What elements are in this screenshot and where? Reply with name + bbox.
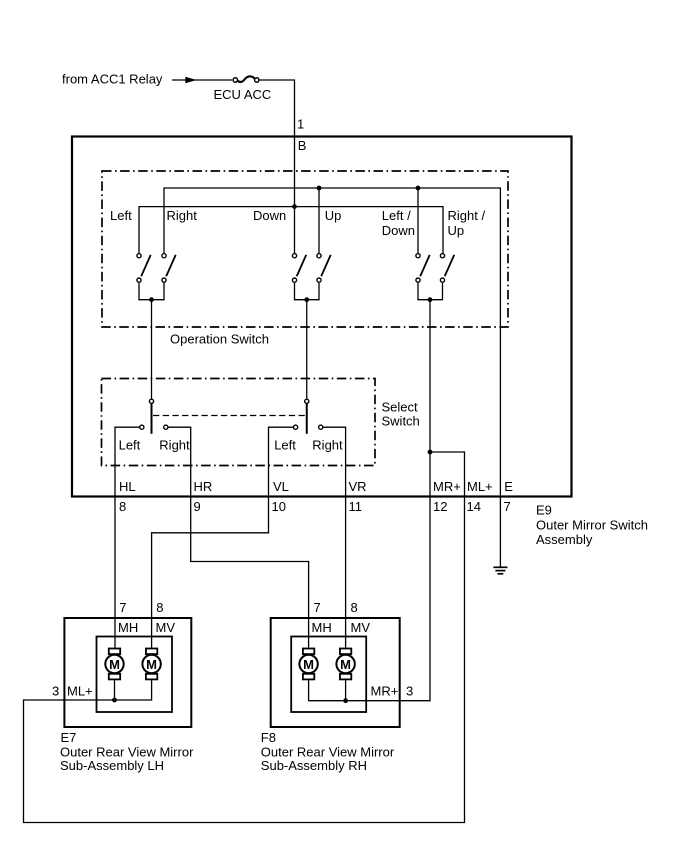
svg-text:E9: E9 <box>536 503 552 518</box>
select switch 1 (horizontal) <box>140 399 168 434</box>
svg-text:Operation Switch: Operation Switch <box>170 332 269 347</box>
wire: Left+Right pair connector <box>139 283 164 300</box>
svg-text:Sub-Assembly LH: Sub-Assembly LH <box>60 758 164 773</box>
svg-text:Down: Down <box>382 223 415 238</box>
wire: pair1 output to select switch 1 common <box>151 300 153 399</box>
motor F8 MV <box>336 649 354 680</box>
svg-text:14: 14 <box>467 499 481 514</box>
operation switch dash-dot box <box>102 171 508 327</box>
junction on upper bus (Left/Down) <box>416 186 421 191</box>
wire: lower bus (Left / Down / RightUp commons) <box>139 207 443 253</box>
svg-text:12: 12 <box>433 499 447 514</box>
svg-text:VR: VR <box>349 479 367 494</box>
svg-text:Outer Mirror Switch: Outer Mirror Switch <box>536 518 648 533</box>
svg-text:MV: MV <box>156 620 176 635</box>
select switch dash-dot box <box>102 379 376 466</box>
E7 inner motor box <box>97 637 173 713</box>
svg-text:Right: Right <box>167 208 198 223</box>
svg-text:ECU ACC: ECU ACC <box>214 87 272 102</box>
svg-text:M: M <box>146 657 157 672</box>
svg-text:B: B <box>298 138 307 153</box>
motor F8 MH <box>299 649 317 680</box>
junction feed to lower bus <box>292 204 297 209</box>
wire: HR from select1 right contact to F8 MH motor <box>168 427 308 648</box>
wire: pair2 output to select switch 2 common <box>306 300 308 399</box>
svg-text:Switch: Switch <box>382 414 420 429</box>
svg-text:MH: MH <box>312 620 332 635</box>
junction E7 motor common <box>112 698 117 703</box>
svg-text:7: 7 <box>314 600 321 615</box>
arrow (feed direction) <box>172 77 232 83</box>
wire: F8 MV motor bottom stub <box>345 679 347 700</box>
svg-text:HR: HR <box>194 479 213 494</box>
component box: E9 outer mirror switch assembly <box>72 137 572 497</box>
svg-text:from ACC1 Relay: from ACC1 Relay <box>62 72 163 87</box>
component box: F8 outer rear view mirror sub-assembly RH <box>271 618 400 727</box>
svg-text:Select: Select <box>382 400 419 415</box>
svg-text:8: 8 <box>119 499 126 514</box>
svg-text:Left /: Left / <box>382 208 411 223</box>
wire: MR+ run, pair3 output down to F8 pin 3 <box>309 300 430 701</box>
svg-text:F8: F8 <box>261 730 276 745</box>
svg-text:Right /: Right / <box>448 208 486 223</box>
svg-text:Left: Left <box>119 437 141 452</box>
junction on upper bus (Up) <box>317 186 322 191</box>
mechanical link (dashed) between select switches <box>153 415 307 417</box>
junction pair3 output <box>428 297 433 302</box>
svg-text:HL: HL <box>119 479 136 494</box>
svg-text:11: 11 <box>349 499 363 514</box>
wire: Up switch stub <box>318 188 320 253</box>
switch SW-Down (operation) <box>292 254 306 283</box>
svg-text:10: 10 <box>272 499 286 514</box>
svg-text:Left: Left <box>110 208 132 223</box>
wire: E7 MH motor bottom stub <box>114 679 116 700</box>
switch SW-Right/Up (operation) <box>440 254 454 283</box>
wire: fuse to node B, down into switch assembly <box>260 80 295 253</box>
wire: VL from select2 left contact to E7 MV motor <box>152 427 294 648</box>
svg-text:ML+: ML+ <box>467 479 493 494</box>
wire: Left/Down switch stub <box>417 188 419 253</box>
select switch 2 (vertical) <box>294 399 323 434</box>
wire: LeftDown+RightUp pair connector <box>418 283 443 300</box>
svg-text:MR+: MR+ <box>433 479 461 494</box>
svg-text:Down: Down <box>253 208 286 223</box>
svg-text:VL: VL <box>273 479 289 494</box>
svg-text:E7: E7 <box>61 730 77 745</box>
svg-text:3: 3 <box>406 683 413 698</box>
svg-text:M: M <box>303 657 314 672</box>
motor E7 MH <box>105 649 123 680</box>
svg-text:8: 8 <box>156 600 163 615</box>
wire: Down+Up pair connector <box>295 283 320 300</box>
svg-text:7: 7 <box>119 600 126 615</box>
svg-text:M: M <box>340 657 351 672</box>
svg-text:Up: Up <box>448 223 465 238</box>
svg-text:Left: Left <box>274 437 296 452</box>
switch SW-Right (operation) <box>162 254 176 283</box>
svg-text:MR+: MR+ <box>371 683 399 698</box>
junction pair1 output <box>149 297 154 302</box>
svg-text:ML+: ML+ <box>67 683 93 698</box>
ground <box>493 567 507 574</box>
svg-text:7: 7 <box>504 499 511 514</box>
motor E7 MV <box>142 649 160 680</box>
svg-text:Sub-Assembly RH: Sub-Assembly RH <box>261 758 367 773</box>
switch SW-Left (operation) <box>137 254 151 283</box>
F8 inner motor box <box>291 637 366 713</box>
component box: E7 outer rear view mirror sub-assembly LH <box>64 618 191 727</box>
wire: ML+ run, branch down around to E7 pin 3 <box>24 452 465 823</box>
svg-text:9: 9 <box>194 499 201 514</box>
wire: VR from select2 right contact to F8 MV motor <box>323 427 345 648</box>
svg-text:Right: Right <box>159 437 190 452</box>
svg-text:3: 3 <box>52 683 59 698</box>
svg-text:8: 8 <box>351 600 358 615</box>
fuse ECU ACC <box>233 76 259 82</box>
svg-text:Assembly: Assembly <box>536 532 593 547</box>
svg-text:M: M <box>109 657 120 672</box>
svg-text:1: 1 <box>297 117 304 132</box>
junction MR+/ML+ branch <box>428 450 433 455</box>
junction F8 motor common <box>343 698 348 703</box>
wire: HL from select1 left contact to E7 MH motor <box>115 427 139 648</box>
svg-text:E: E <box>504 479 513 494</box>
junction pair2 output <box>304 297 309 302</box>
switch SW-Up (operation) <box>317 254 331 283</box>
svg-text:MH: MH <box>118 620 138 635</box>
svg-text:Up: Up <box>325 208 342 223</box>
wire: upper bus (Right / Up / LeftDown commons) continuing down as E wire to ground <box>164 188 500 567</box>
svg-text:MV: MV <box>351 620 371 635</box>
svg-text:Right: Right <box>312 437 343 452</box>
switch SW-Left/Down (operation) <box>416 254 430 283</box>
